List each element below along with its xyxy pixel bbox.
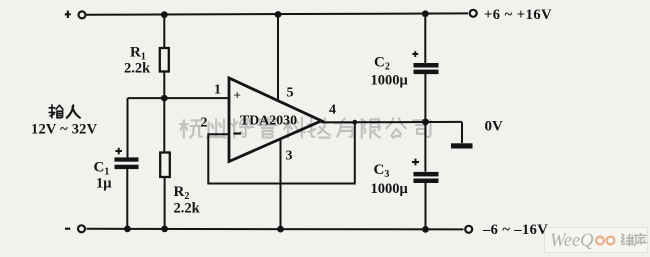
wire top rail [87, 13, 469, 14]
polarity + (C1) [115, 148, 122, 155]
terminal +6~+16V output [470, 10, 477, 17]
resistor R2 [160, 153, 170, 178]
svg-text:2.2k: 2.2k [124, 61, 151, 77]
svg-text:1: 1 [214, 83, 221, 98]
label 输入 (input) [49, 105, 63, 118]
svg-text:2.2k: 2.2k [174, 201, 201, 217]
wire bottom rail [87, 228, 464, 231]
wire C1 branch [126, 98, 128, 229]
watermark text 杭州将睿科技有限公司 [180, 117, 430, 137]
wire op-amp output [322, 121, 463, 124]
svg-text:+6 ~ +16V: +6 ~ +16V [484, 7, 552, 23]
svg-text:5: 5 [287, 86, 294, 101]
svg-text:1μ: 1μ [96, 176, 112, 192]
polarity + (C2) [412, 51, 418, 57]
junction [161, 226, 168, 233]
junction [275, 11, 282, 18]
wire pin 5 to top rail [277, 15, 279, 100]
wire R1-R2 vertical branch [163, 15, 165, 229]
wire C2 branch [424, 14, 426, 230]
junction [277, 226, 284, 233]
watermark WeeQoo维库 box [545, 228, 648, 253]
junction [124, 226, 131, 233]
svg-text:WeeQ: WeeQ [550, 231, 594, 251]
svg-text:0V: 0V [485, 119, 504, 135]
capacitor C3 [414, 172, 439, 183]
junction [422, 119, 429, 126]
junction [161, 95, 168, 102]
wire pin2 feedback loop [208, 122, 354, 183]
svg-text:3: 3 [286, 149, 293, 164]
op-amp - input marker [234, 132, 242, 134]
junction feedback tap [352, 120, 357, 125]
wire pin1 to divider junction [128, 97, 229, 99]
svg-text:1000μ: 1000μ [371, 181, 409, 197]
svg-text:1000μ: 1000μ [371, 73, 409, 89]
junction [161, 11, 168, 18]
svg-text:2: 2 [201, 116, 208, 131]
ground 0V bar [451, 143, 473, 148]
capacitor C1 [115, 157, 139, 169]
svg-text:+: + [234, 88, 241, 103]
terminal -6~-16V output [465, 226, 472, 233]
svg-text:–6 ~ –16V: –6 ~ –16V [482, 222, 548, 238]
svg-text:12V ~ 32V: 12V ~ 32V [31, 122, 98, 138]
wire 0V branch down [461, 122, 463, 143]
terminal + input [79, 11, 86, 18]
junction [422, 226, 429, 233]
op-amp U1 TDA2030 [229, 78, 322, 162]
svg-text:4: 4 [329, 103, 336, 118]
resistor R1 [160, 48, 169, 72]
terminal - input [78, 225, 85, 232]
polarity + (C3) [412, 159, 419, 166]
capacitor C2 [414, 63, 439, 74]
junction [422, 10, 429, 17]
wire pin 3 to bottom rail [280, 139, 282, 230]
